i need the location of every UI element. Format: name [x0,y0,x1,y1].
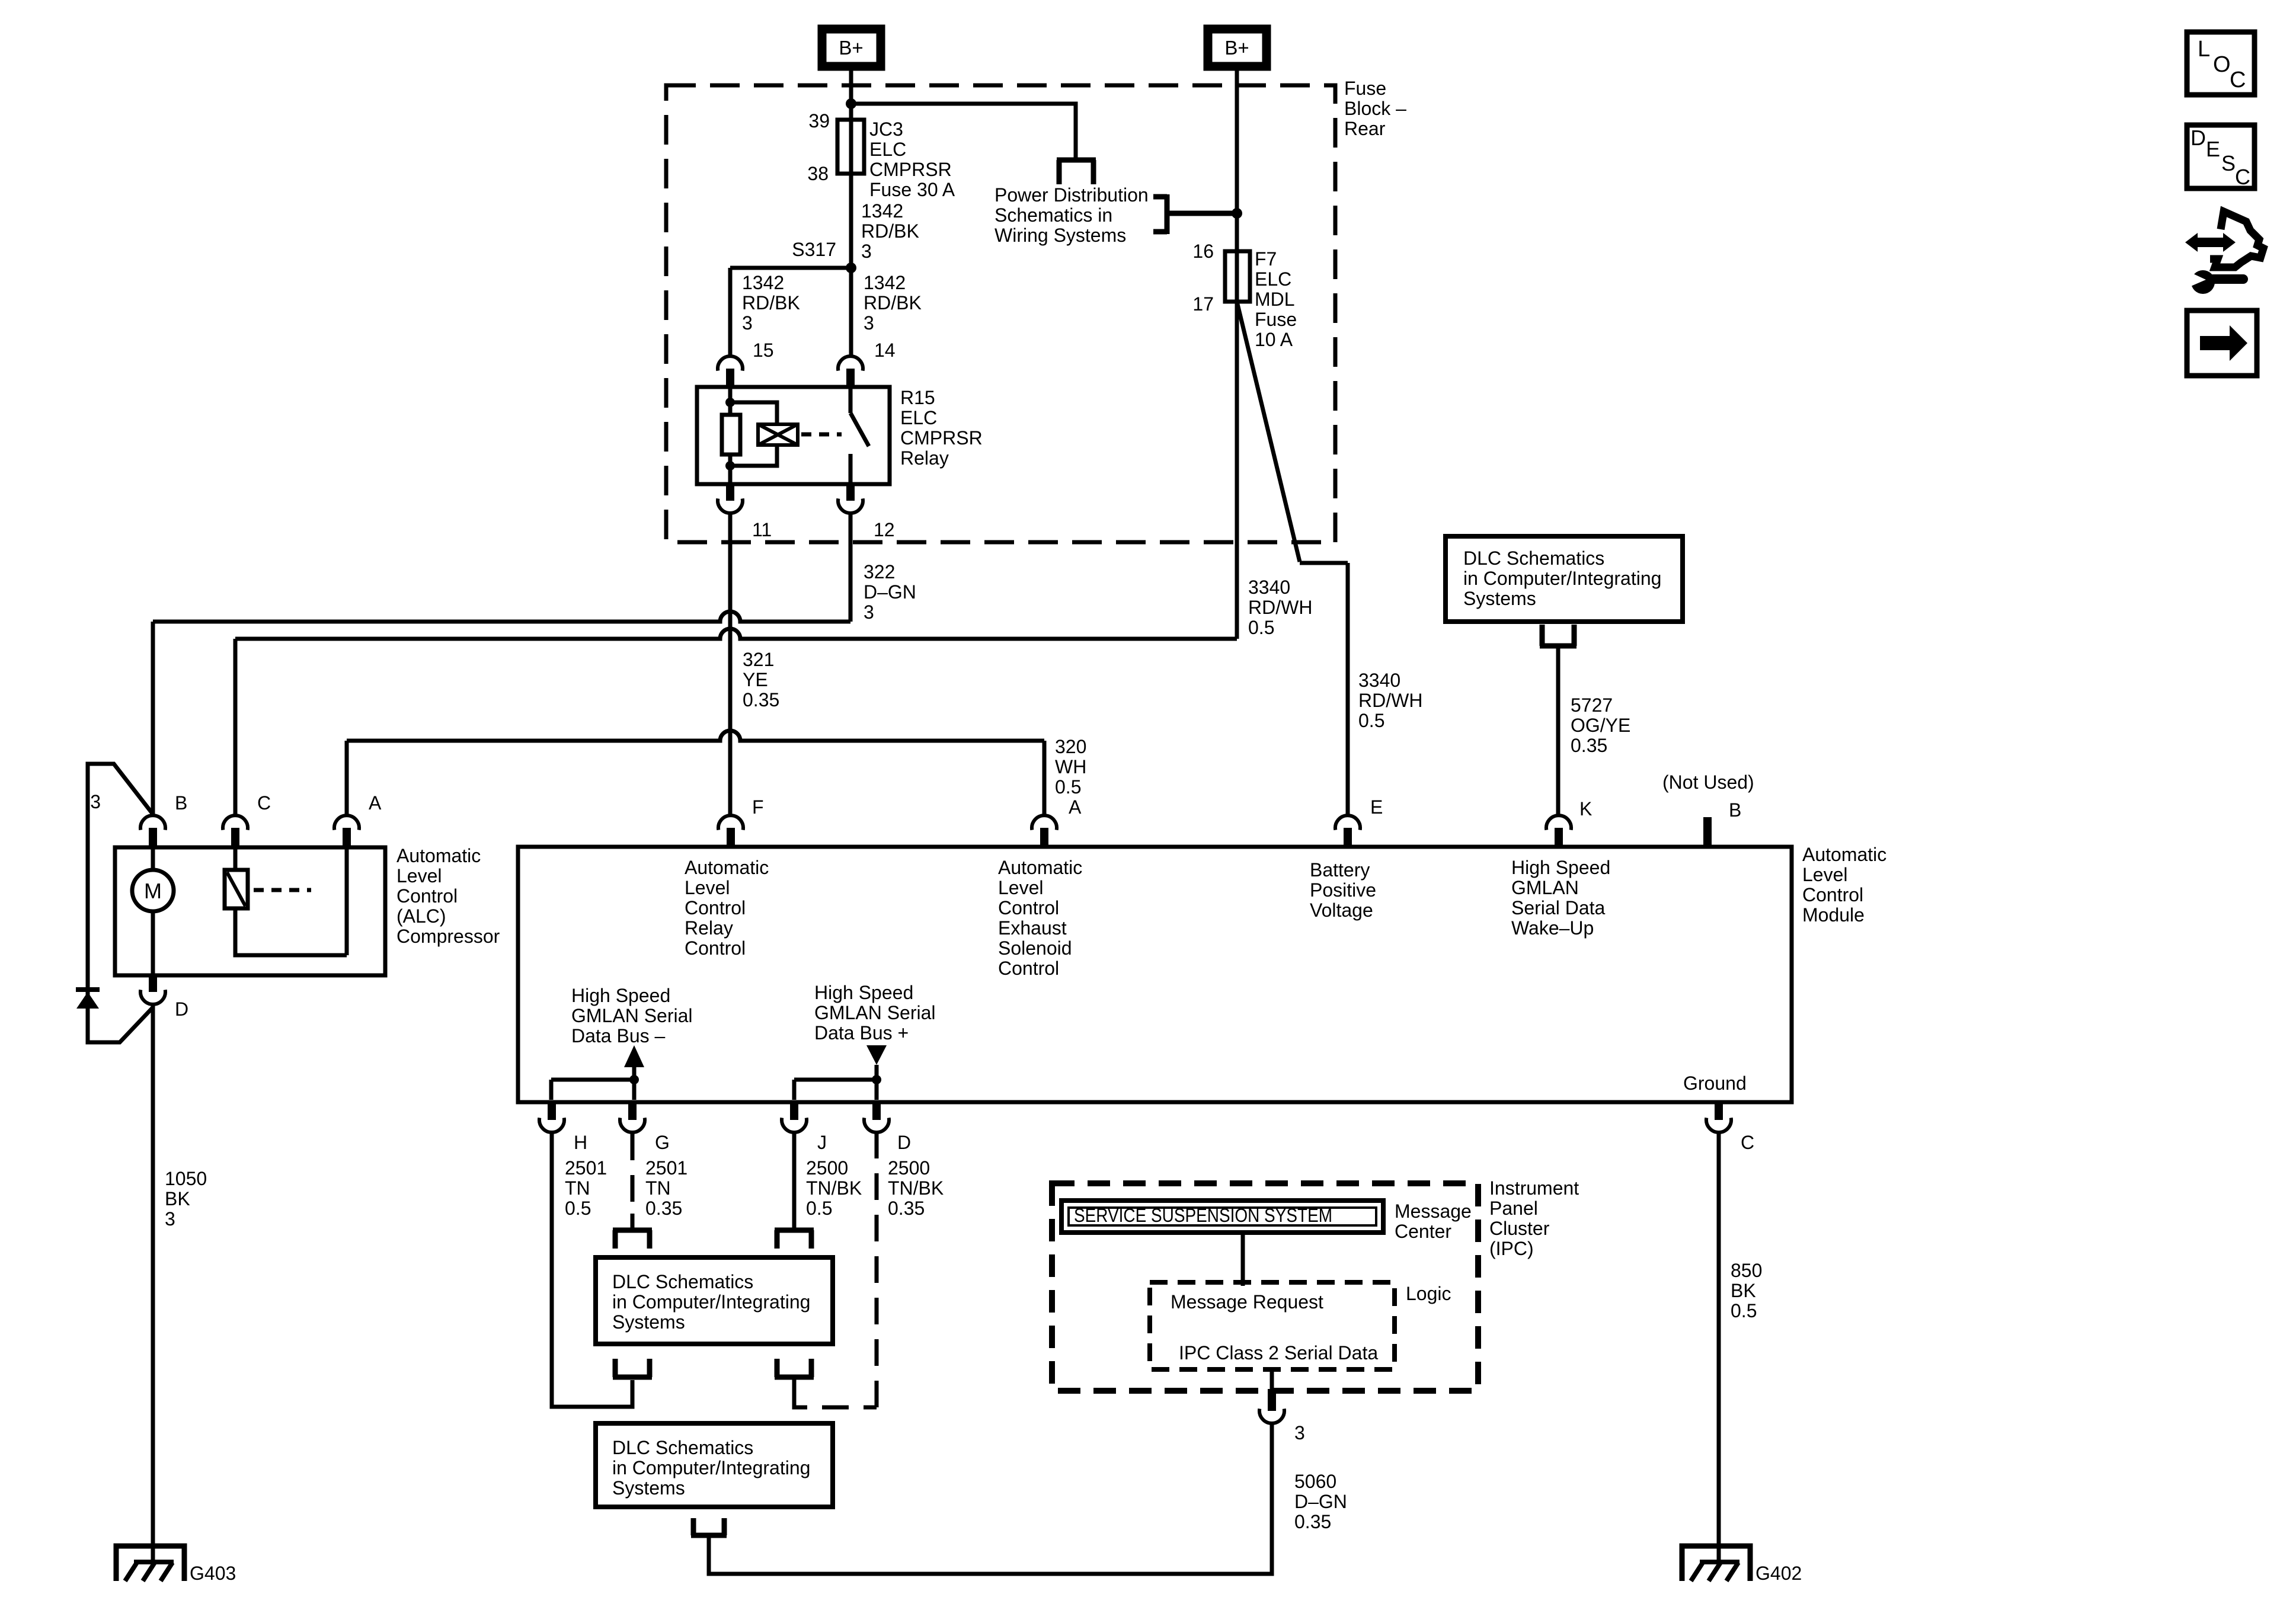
svg-text:O: O [2213,52,2231,77]
compressor motor M [151,847,155,975]
svg-text:C: C [2230,68,2246,92]
fuse F7 ELC MDL 10A [1225,251,1250,302]
svg-text:14: 14 [874,340,896,361]
wire B+2 to fuse F7 [1235,66,1239,639]
svg-text:Message Request: Message Request [1171,1291,1323,1313]
connector D [872,1101,881,1120]
svg-text:B: B [175,792,187,814]
svg-text:S317: S317 [792,239,836,260]
power distribution reference bracket [1153,194,1237,234]
connector D (compressor) [149,974,157,992]
svg-text:C: C [2235,165,2250,189]
connector C (compressor) [223,815,248,830]
junction node coil bottom [725,461,735,470]
svg-text:G402: G402 [1755,1563,1802,1584]
wire bus plus to pins J and D [794,1080,877,1100]
connector pin 14 [838,356,863,371]
relay actuator dashed link [801,433,842,437]
svg-text:C: C [257,792,271,814]
svg-text:D: D [175,998,188,1020]
svg-text:D: D [897,1132,911,1153]
bracket below DLC box (left) [613,1359,652,1377]
service suspension system message box [1061,1201,1383,1233]
wire 3340 RD/WH fuse F7 to module E [1237,302,1348,814]
fuse JC3 ELC CMPRSR 30A [837,120,864,174]
ALC compressor box [115,847,385,975]
wire 5727 OG/YE to module K [1556,648,1560,814]
relay R15 ELC CMPRSR box [697,387,890,484]
exhaust solenoid valve [234,847,238,870]
instrument panel cluster dashed box [1052,1183,1478,1391]
bracket below DLC box (right) [775,1359,814,1377]
svg-text:A: A [1069,796,1082,818]
junction node bus minus [629,1075,639,1084]
fuse block rear dashed outline [666,85,1335,542]
connector pin 12 [846,483,855,501]
wire 850 BK 0.5 to ground [1717,1134,1721,1563]
svg-text:(Not Used): (Not Used) [1662,772,1754,793]
wire junction to power distribution bracket [851,104,1076,158]
connector A (module) [1032,815,1057,830]
svg-text:15: 15 [753,340,774,361]
svg-text:3: 3 [1294,1422,1305,1443]
svg-text:F: F [752,796,764,818]
svg-text:Logic: Logic [1406,1283,1451,1304]
svg-text:C: C [1741,1132,1754,1153]
svg-text:12: 12 [874,519,895,540]
power feed B+ terminal 1 [822,29,881,66]
wire 5060 D-GN to IPC [709,1423,1272,1574]
bracket below lower DLC box [691,1518,727,1535]
diode [76,987,100,992]
svg-text:3: 3 [90,791,101,812]
svg-text:B+: B+ [1224,37,1249,59]
connector pin 15 [718,356,743,371]
icon forward arrow box [2187,311,2257,376]
svg-text:D: D [2191,126,2206,150]
relay coil resistor [728,387,733,415]
svg-text:E: E [2206,137,2220,161]
svg-text:16: 16 [1192,241,1214,262]
relay switch [850,387,869,484]
svg-text:IPC Class 2 Serial Data: IPC Class 2 Serial Data [1179,1342,1378,1363]
wire B+1 to fuse JC3 [849,66,853,268]
DLC schematics reference box (upper) [1446,536,1683,622]
svg-text:11: 11 [752,519,772,540]
wire 320 WH compressor A to module A [347,731,1044,814]
connector 3 (IPC serial data) [1270,1369,1274,1389]
svg-text:G403: G403 [190,1563,236,1584]
solenoid actuator dashed link [254,888,311,892]
connector pin 11 [726,483,734,501]
wire S317 to relay pin 15 [730,268,851,355]
bracket below DLC box [1540,625,1576,646]
svg-text:Ground: Ground [1683,1073,1747,1094]
power feed B+ terminal 2 [1208,29,1267,66]
wire S317 to relay pin 14 [849,268,853,355]
connector J [790,1101,798,1120]
svg-text:S: S [2221,151,2236,175]
GMLAN data bus minus arrow [624,1045,644,1067]
dashed return loop to pin D [794,1134,877,1407]
connector B not used stub [1703,817,1712,847]
junction node coil top [725,398,735,407]
svg-text:BatteryPositiveVoltage: BatteryPositiveVoltage [1310,859,1376,921]
GMLAN data bus plus arrow [866,1045,887,1065]
wire DLC bracket to pin J loop [792,1379,797,1394]
connector C [1715,1101,1723,1120]
svg-text:39: 39 [808,110,830,132]
svg-text:L: L [2198,37,2210,62]
svg-text:H: H [574,1132,587,1153]
DLC schematics reference box (lower) [596,1423,833,1507]
DLC schematics reference box (middle) [596,1257,833,1344]
connector H [548,1101,556,1120]
bracket above DLC box (J) [775,1230,814,1249]
connector K [1546,815,1571,830]
wire 1050 BK 3 to ground [151,1006,155,1563]
connector A (compressor) [334,815,359,830]
wire 321 YE relay pin 11 to module F [728,514,733,814]
wire 2500 TN/BK 0.5 from pin J [792,1134,797,1230]
icon LOC box [2187,32,2255,95]
svg-text:E: E [1370,796,1383,818]
icon DESC box [2187,125,2255,188]
diode bypass wire [88,764,153,1042]
wire 322 D-GN relay pin 12 to compressor B [153,514,850,814]
connector F [718,815,743,830]
junction node power distribution tap [1232,208,1242,219]
connector B (compressor) [140,815,165,830]
svg-text:G: G [655,1132,670,1153]
wire 2501 TN 0.5 from pin H [552,1134,632,1407]
junction node at B+1 feed [846,98,856,109]
icon vehicle diagnostic [2198,238,2224,247]
off-page bracket to power distribution [1057,160,1096,184]
bracket above DLC box (G) [613,1230,652,1249]
ground G403 [116,1546,184,1581]
splice S317 [846,263,856,273]
relay coil winding [730,402,777,466]
svg-text:B+: B+ [839,37,863,59]
automatic level control module box [518,847,1792,1102]
connector G [628,1101,637,1120]
svg-text:B: B [1729,799,1741,821]
ground G402 [1682,1546,1750,1581]
wire bus minus to pins H and G [551,1080,634,1100]
svg-text:A: A [369,792,382,814]
wire 3340 RD/WH fuse F7 to compressor C [235,629,1237,814]
svg-text:38: 38 [807,163,829,184]
svg-text:K: K [1579,798,1592,820]
wire message box to logic [1241,1233,1245,1286]
IPC logic dashed box [1150,1282,1395,1369]
svg-text:SERVICE SUSPENSION SYSTEM: SERVICE SUSPENSION SYSTEM [1074,1205,1332,1226]
wire 2501 TN 0.35 from pin G (dashed) [631,1134,635,1214]
svg-text:J: J [817,1132,827,1153]
connector E [1335,815,1360,830]
svg-text:17: 17 [1192,293,1214,315]
svg-text:M: M [144,879,162,903]
junction node bus plus [872,1075,881,1084]
